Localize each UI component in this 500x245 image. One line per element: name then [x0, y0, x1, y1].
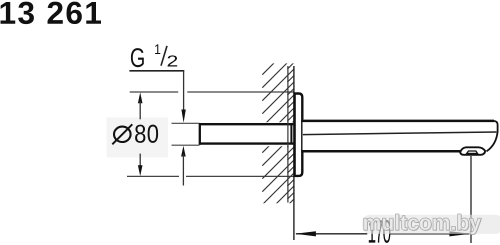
wall line left [287, 66, 289, 203]
label Ø80 [112, 124, 158, 144]
lower arrow G1/2 [181, 146, 186, 186]
dimension Ø80 extension line bottom [127, 175, 295, 177]
leader line from aerator (170 extension right) [470, 156, 472, 243]
spout body [301, 120, 499, 156]
label 170 [369, 220, 391, 243]
wall face line / 170 extension [293, 66, 295, 240]
dimension Ø80 lower arrow [138, 154, 143, 177]
inlet shank (tube through wall) [199, 123, 295, 145]
dimension Ø80 extension line top [130, 91, 295, 93]
aerator [460, 147, 485, 155]
dimension Ø80 upper arrow [138, 92, 143, 119]
watermark strip [362, 215, 500, 234]
extension lines G1/2 (shank diameter) [172, 123, 200, 145]
faint patch behind Ø80 label [107, 117, 169, 157]
wall flange Ø80 [295, 94, 303, 176]
shank end joint line [290, 124, 292, 145]
underline of G 1/2 [129, 70, 184, 72]
wall hatching [262, 43, 294, 231]
watermark text multcom.by [364, 214, 482, 235]
label G 1/2 [131, 44, 177, 67]
leader line G1/2 down to shank with arrow [181, 71, 185, 123]
part number 13 261 [1, 2, 102, 24]
dimension 170 line [295, 231, 471, 236]
